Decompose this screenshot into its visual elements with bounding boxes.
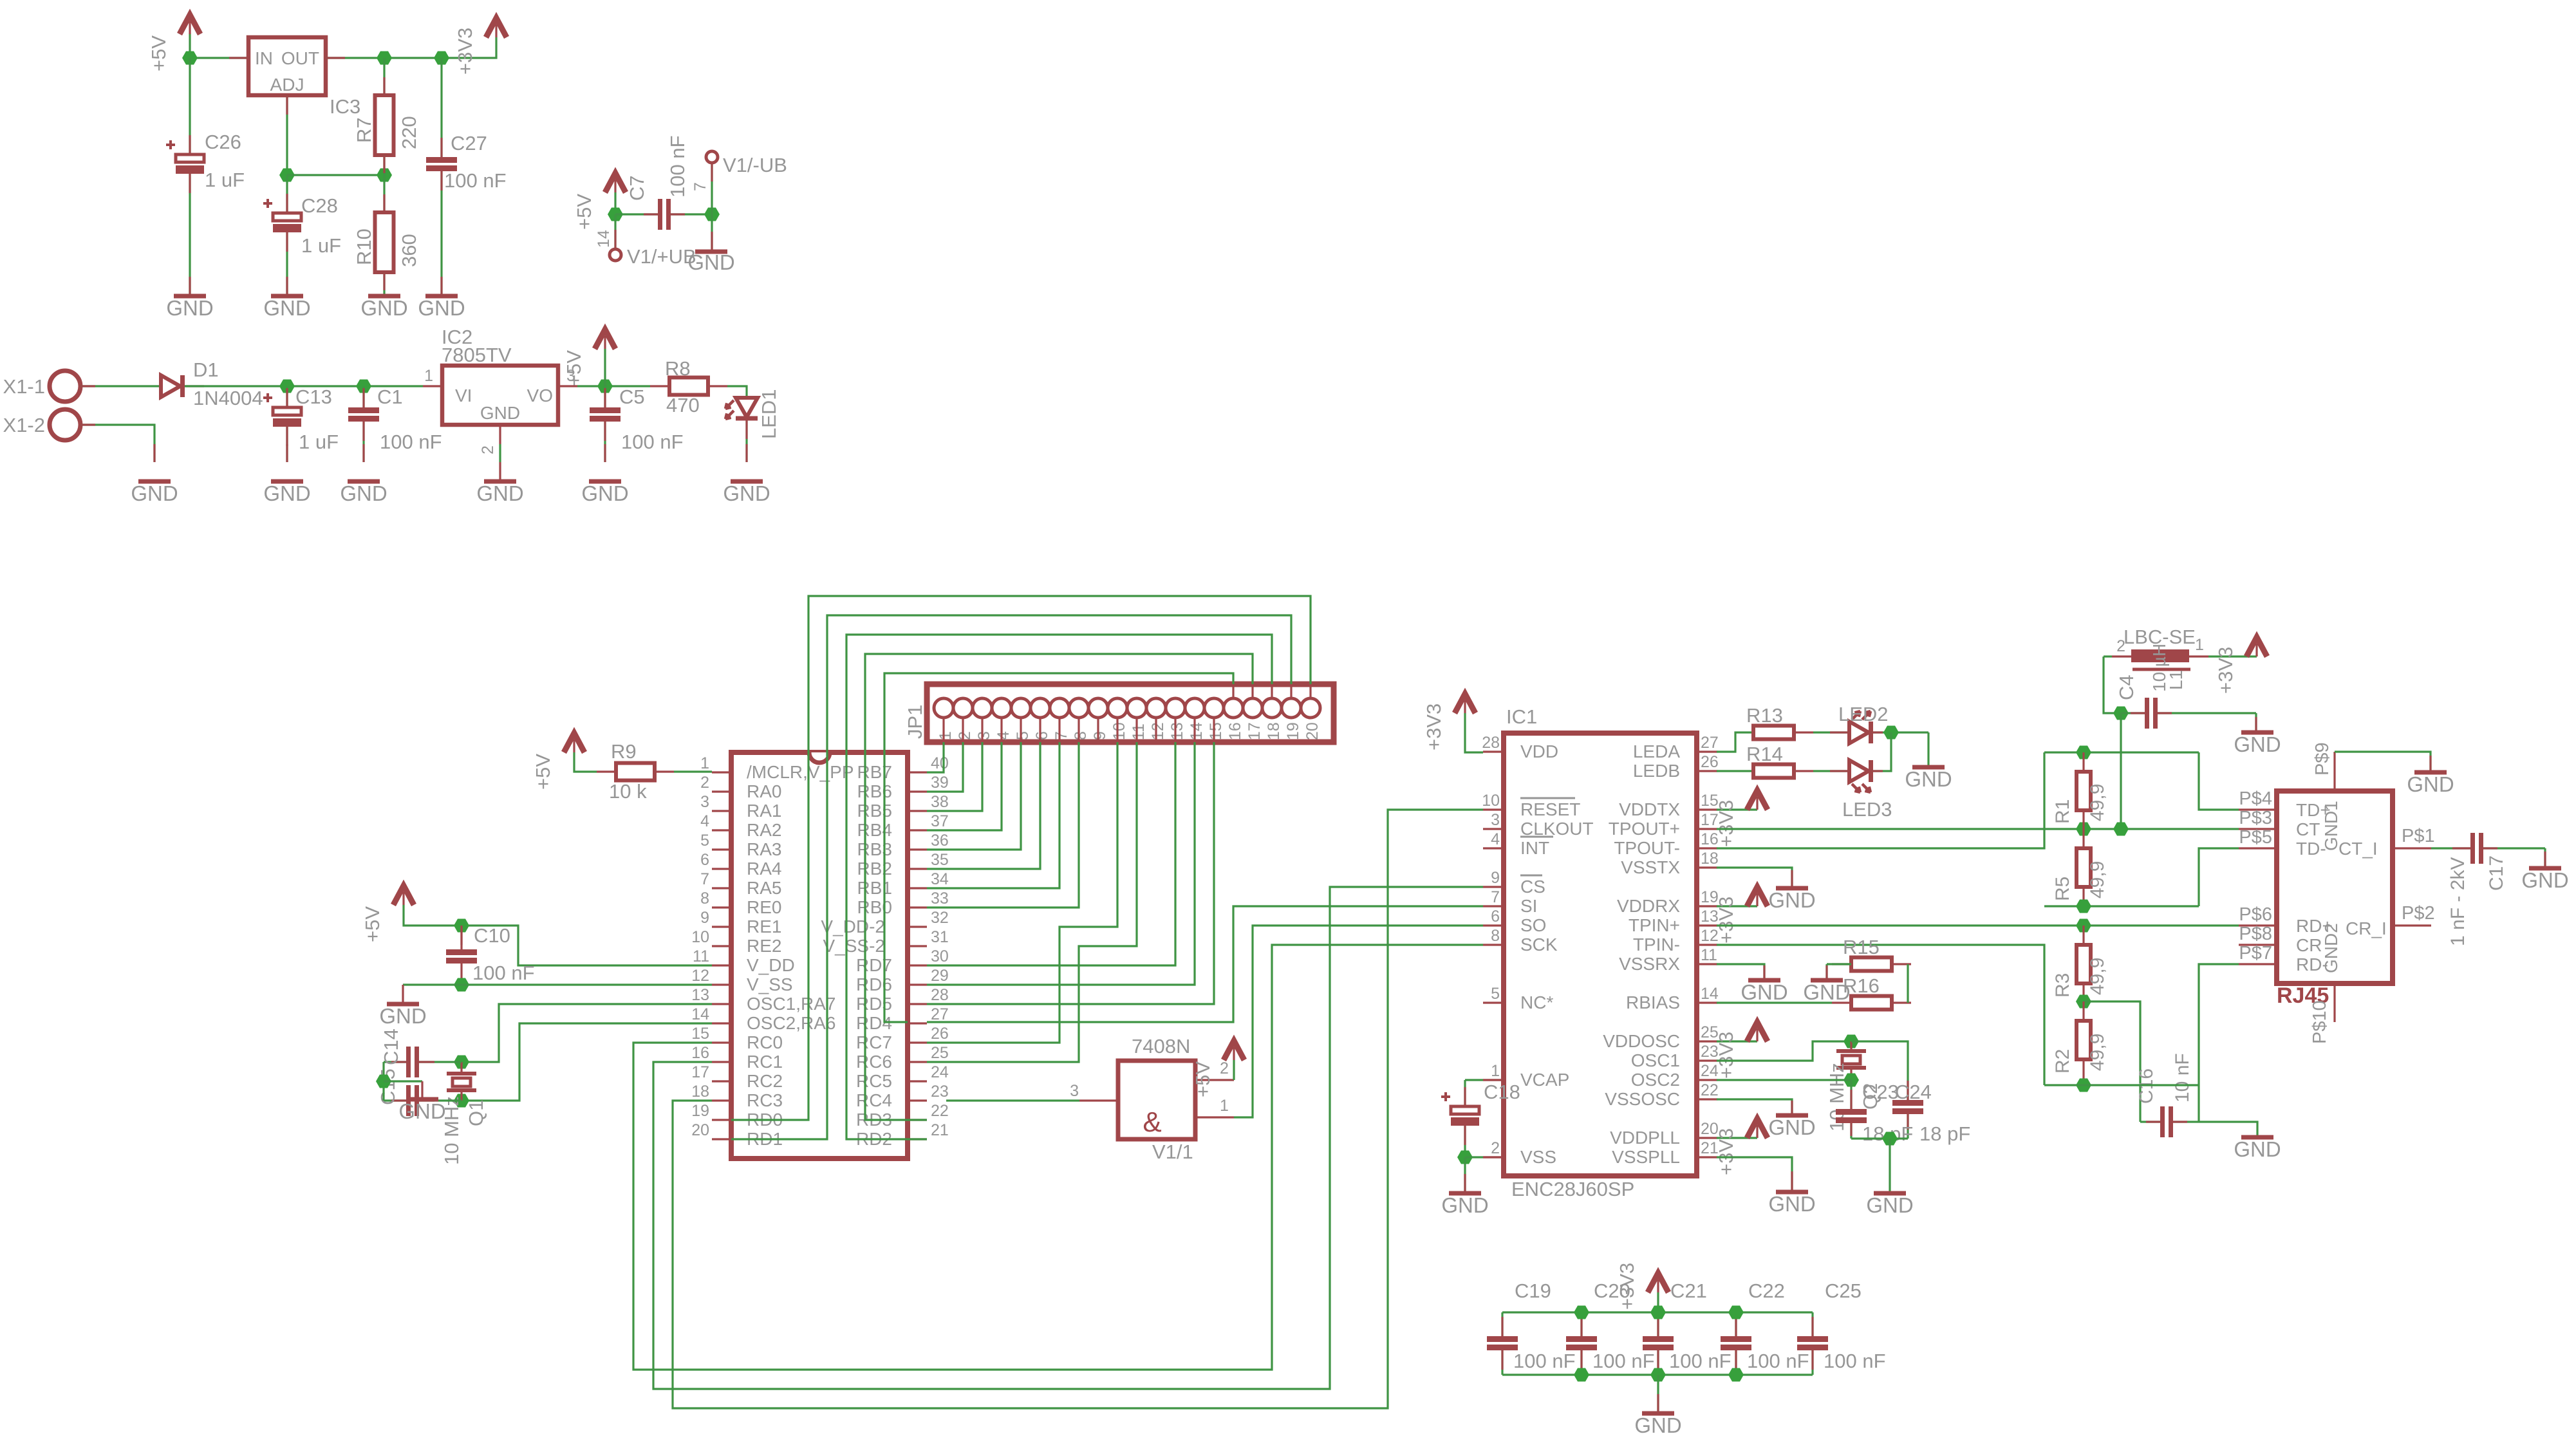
svg-text:RC1: RC1: [747, 1052, 783, 1072]
wire R15 left to GND: [1827, 963, 1851, 965]
svg-text:X1-1: X1-1: [3, 375, 45, 398]
junction C22 bottom: [1728, 1368, 1744, 1382]
capacitor C15: [419, 1099, 462, 1101]
svg-text:GND: GND: [263, 296, 310, 320]
LED3: [1849, 760, 1869, 782]
loop wire JP1-16 to RD4: [884, 673, 1233, 1022]
svg-text:20: 20: [691, 1121, 709, 1139]
svg-text:LEDB: LEDB: [1633, 761, 1680, 781]
svg-text:GND: GND: [1741, 980, 1787, 1004]
svg-text:GND: GND: [360, 296, 407, 320]
capacitor C26 1uF: [176, 154, 204, 162]
svg-text:IC3: IC3: [330, 95, 360, 118]
junction Q2 bottom: [1843, 1074, 1859, 1087]
wire JP1-13 to RD7: [927, 742, 1175, 965]
svg-text:C13: C13: [295, 386, 332, 408]
svg-text:C10: C10: [474, 924, 510, 947]
svg-text:GND: GND: [263, 481, 310, 505]
svg-text:VDDOSC: VDDOSC: [1603, 1031, 1680, 1051]
svg-text:R8: R8: [665, 357, 691, 380]
svg-text:V1/-UB: V1/-UB: [723, 154, 787, 176]
svg-text:RC0: RC0: [747, 1032, 783, 1052]
junction C21 top: [1650, 1306, 1666, 1319]
wire VO to +5V node: [558, 385, 577, 387]
ground for C5: [589, 480, 621, 484]
+3V3 supply symbol top-left: [486, 18, 507, 37]
svg-text:11: 11: [1130, 723, 1148, 740]
svg-text:22: 22: [1701, 1081, 1719, 1099]
svg-text:GND2: GND2: [2321, 923, 2341, 973]
svg-text:P$3: P$3: [2239, 808, 2272, 828]
svg-text:R5: R5: [2052, 877, 2073, 901]
junction C1: [356, 380, 371, 393]
svg-text:SO: SO: [1520, 915, 1546, 935]
svg-text:22: 22: [931, 1102, 949, 1120]
svg-text:RA4: RA4: [747, 859, 781, 879]
+3V3 for VDDRX: [1717, 905, 1757, 907]
junction C20 top: [1574, 1306, 1589, 1319]
+3V3 supply for IC1 VDD: [1455, 694, 1475, 713]
net OSC1 jog to crystal Q2: [1717, 1041, 1851, 1061]
svg-text:3: 3: [700, 793, 709, 811]
junction C22 top: [1728, 1306, 1744, 1319]
junction C13: [279, 380, 295, 393]
resistor R14: [1753, 765, 1794, 778]
svg-text:25: 25: [931, 1044, 949, 1062]
junction LED2/LED3 cathodes: [1871, 731, 1928, 733]
junction crystal top: [454, 1056, 469, 1069]
AND gate 7408N V1/1: [1118, 1061, 1195, 1139]
junction C10 top: [454, 919, 469, 933]
net TPIN+ to RD+: [1717, 924, 2239, 926]
svg-text:VSSTX: VSSTX: [1621, 857, 1680, 877]
svg-text:7: 7: [1491, 888, 1500, 906]
svg-text:3: 3: [1070, 1082, 1079, 1100]
capacitor C5 100nF: [604, 386, 606, 407]
PIC right pin stubs, numbers, names: [908, 771, 927, 773]
resistor R1 49.9: [2082, 752, 2084, 772]
svg-text:14: 14: [1188, 722, 1206, 740]
junction R1 bottom R5 top: [2076, 823, 2091, 836]
RX bottom rail: [2044, 1084, 2199, 1086]
svg-text:24: 24: [931, 1063, 949, 1081]
wire JP1-11 to RC6: [927, 742, 1137, 1062]
junction +5V/C5: [597, 380, 613, 393]
junction R3/R2/C16: [2076, 995, 2091, 1009]
wire R8 to LED1: [727, 386, 747, 398]
svg-text:18: 18: [691, 1083, 709, 1101]
svg-text:INT: INT: [1520, 838, 1549, 858]
wire node to C16: [2084, 1001, 2140, 1122]
svg-text:16: 16: [1226, 722, 1244, 740]
capacitor C24 18pF: [1892, 1100, 1923, 1106]
RJ45 pin P$9 to GND: [2333, 752, 2335, 791]
svg-text:26: 26: [931, 1025, 949, 1043]
resistor R5 49.9: [2082, 829, 2084, 848]
capacitor C1 100nF: [362, 386, 364, 407]
svg-text:R14: R14: [1746, 743, 1783, 765]
wire TD- to bottom rail: [2199, 848, 2239, 906]
capacitor C7 100nF: [615, 213, 658, 215]
junction crystal bottom: [454, 1094, 469, 1108]
svg-text:C24: C24: [1895, 1081, 1932, 1103]
capacitor C4: [2121, 712, 2145, 714]
svg-text:1N4004: 1N4004: [193, 387, 263, 409]
svg-text:ADJ: ADJ: [270, 75, 304, 95]
svg-text:GND: GND: [2521, 868, 2568, 892]
resistor R15: [1832, 963, 1851, 965]
svg-text:1 uF: 1 uF: [205, 169, 245, 191]
svg-text:17: 17: [1246, 722, 1264, 740]
svg-text:37: 37: [931, 812, 949, 830]
svg-text:NC*: NC*: [1520, 992, 1553, 1012]
svg-text:9: 9: [1491, 869, 1500, 887]
svg-text:C1: C1: [377, 386, 403, 408]
wire to pad V1/-UB: [711, 162, 713, 214]
svg-text:1: 1: [700, 754, 709, 772]
svg-text:RB4: RB4: [857, 820, 892, 840]
svg-text:JP1: JP1: [904, 705, 926, 739]
svg-text:26: 26: [1701, 753, 1719, 771]
svg-text:10: 10: [1482, 792, 1500, 810]
svg-text:8: 8: [1072, 731, 1090, 740]
svg-text:1 uF: 1 uF: [301, 234, 341, 257]
svg-text:6: 6: [1491, 908, 1500, 926]
svg-text:C27: C27: [451, 132, 487, 154]
svg-text:&: &: [1143, 1106, 1161, 1138]
svg-text:GND: GND: [2234, 1137, 2281, 1161]
svg-text:+3V3: +3V3: [1715, 800, 1737, 847]
svg-text:RBIAS: RBIAS: [1626, 992, 1680, 1012]
ground for C26: [174, 294, 206, 299]
svg-text:1: 1: [1491, 1062, 1500, 1080]
ground for VSSPLL: [1776, 1190, 1808, 1195]
svg-text:RC5: RC5: [856, 1071, 892, 1091]
capacitor C25 100nF: [1811, 1312, 1813, 1336]
svg-text:VDDRX: VDDRX: [1617, 896, 1680, 916]
svg-text:19: 19: [691, 1102, 709, 1120]
wire RD- down to C16: [2199, 964, 2239, 1122]
svg-text:C26: C26: [205, 131, 241, 153]
svg-text:R3: R3: [2052, 973, 2073, 998]
svg-text:+3V3: +3V3: [1715, 1128, 1737, 1175]
svg-text:GND: GND: [2407, 772, 2454, 796]
svg-text:CT_I: CT_I: [2338, 839, 2378, 859]
loop wire JP1-20 to RD0: [731, 596, 1311, 1120]
junction C20 bottom: [1574, 1368, 1589, 1382]
RJ45 pin P$1 stub: [2393, 847, 2431, 849]
svg-text:CR_I: CR_I: [2346, 918, 2387, 938]
wire L1 pin1 to +3V3: [2189, 655, 2208, 657]
svg-text:14: 14: [595, 230, 613, 248]
svg-text:10 k: 10 k: [609, 780, 647, 803]
svg-text:11: 11: [693, 947, 709, 965]
junction Q2 top: [1843, 1035, 1859, 1048]
ground for LED1: [731, 480, 763, 484]
wire JP1-10 to RC7: [927, 742, 1117, 1043]
svg-text:100 nF: 100 nF: [621, 431, 684, 453]
capacitor C13 1uF: [286, 386, 288, 407]
svg-text:VDDPLL: VDDPLL: [1610, 1128, 1680, 1148]
svg-text:C25: C25: [1825, 1280, 1862, 1302]
pad V1/+UB pin 14: [610, 249, 621, 261]
wire C7 to GND: [711, 214, 713, 250]
ground for C18: [1449, 1191, 1481, 1196]
svg-text:34: 34: [931, 870, 949, 888]
svg-text:7805TV: 7805TV: [442, 344, 512, 366]
wire JP1-2 to RB6: [927, 742, 963, 792]
svg-text:TPOUT-: TPOUT-: [1614, 838, 1680, 858]
net OSC1 to crystal: [462, 1004, 712, 1062]
ground for R10: [368, 294, 400, 299]
ground for C23/C24: [1874, 1191, 1906, 1196]
svg-text:OSC1: OSC1: [1631, 1050, 1680, 1070]
svg-text:2: 2: [1220, 1059, 1229, 1077]
svg-text:R7: R7: [353, 117, 375, 143]
ground for C7: [695, 250, 727, 254]
svg-text:C23: C23: [1862, 1081, 1899, 1103]
RJ45 pin P$10 stub: [2333, 983, 2335, 1022]
svg-text:29: 29: [931, 967, 949, 985]
svg-text:32: 32: [931, 909, 949, 927]
svg-text:4: 4: [1491, 830, 1500, 848]
svg-text:GND: GND: [1634, 1413, 1681, 1434]
svg-text:VO: VO: [527, 386, 553, 405]
net TPOUT+ to CT: [1717, 828, 2239, 830]
wire JP1-7 to RB1: [927, 742, 1059, 888]
ground for VSSTX: [1776, 886, 1808, 891]
svg-text:V1/+UB: V1/+UB: [627, 245, 696, 268]
svg-text:7: 7: [691, 182, 709, 191]
junction R2 bottom: [2076, 1079, 2091, 1092]
svg-text:RB2: RB2: [857, 859, 892, 879]
LED2: [1849, 722, 1869, 743]
RJ45 jack box: [2277, 791, 2393, 983]
svg-text:P$10: P$10: [2310, 1000, 2330, 1044]
svg-text:R1: R1: [2052, 799, 2073, 824]
svg-text:49,9: 49,9: [2087, 861, 2108, 899]
svg-text:P$7: P$7: [2239, 943, 2272, 964]
+5V supply symbol: [180, 15, 200, 34]
pad X1-1: [50, 371, 80, 402]
svg-text:7: 7: [700, 870, 709, 888]
svg-text:10 nF: 10 nF: [2172, 1053, 2193, 1103]
crystal Q1 10MHz: [460, 1062, 462, 1074]
wire ADJ pin down: [286, 95, 288, 175]
svg-text:2: 2: [479, 445, 497, 454]
wire C28 to GND: [286, 232, 288, 295]
junction CT/R branch: [2113, 823, 2129, 836]
svg-text:+3V3: +3V3: [1715, 897, 1737, 944]
wire VSS: [1465, 1156, 1483, 1158]
svg-text:GND: GND: [1803, 980, 1850, 1004]
ground for C17: [2529, 866, 2561, 871]
wire D1 to IC2 VI: [185, 385, 423, 387]
svg-text:RC3: RC3: [747, 1090, 783, 1110]
svg-text:5: 5: [700, 832, 709, 850]
net RC1 to CS loop: [653, 887, 1483, 1389]
svg-text:100 nF: 100 nF: [444, 169, 507, 192]
svg-text:C14: C14: [380, 1029, 402, 1065]
svg-text:100 nF: 100 nF: [1592, 1350, 1655, 1372]
wire LED1 to GND: [745, 420, 747, 462]
junction VSS/C18: [1457, 1151, 1473, 1164]
svg-text:100 nF: 100 nF: [1824, 1350, 1886, 1372]
svg-text:20: 20: [1303, 722, 1321, 740]
svg-text:4: 4: [994, 731, 1013, 740]
wire C4 to GND: [2255, 713, 2257, 731]
svg-text:18 pF: 18 pF: [1919, 1122, 1970, 1145]
svg-text:RE0: RE0: [747, 897, 781, 917]
svg-text:100 nF: 100 nF: [666, 135, 689, 198]
wire ADJ to R7-R10 node: [287, 174, 384, 176]
svg-text:RA1: RA1: [747, 801, 781, 821]
header JP1 box: [927, 684, 1334, 742]
ground for C4: [2241, 731, 2273, 735]
svg-text:1: 1: [2195, 636, 2204, 654]
pin-1 notch: [809, 752, 830, 763]
svg-text:360: 360: [398, 234, 420, 267]
svg-text:VSS: VSS: [1520, 1147, 1556, 1167]
LED1: [736, 398, 758, 417]
resistor R13: [1753, 726, 1794, 740]
svg-text:1: 1: [1220, 1097, 1229, 1115]
svg-text:23: 23: [931, 1083, 949, 1101]
net RC4 to 7408 pin 3: [946, 1099, 1079, 1101]
svg-text:19: 19: [1284, 722, 1302, 740]
net LEDB through R14: [1717, 770, 1753, 772]
+3V3 for VDDTX: [1717, 808, 1757, 810]
capacitor C16 10nF: [2140, 1121, 2160, 1122]
svg-text:2: 2: [956, 731, 974, 740]
net RC3 to RESET loop: [673, 810, 1483, 1408]
+3V3 for VDDOSC: [1717, 1040, 1757, 1042]
+5V supply symbol near C7: [605, 173, 626, 192]
svg-text:RA3: RA3: [747, 839, 781, 859]
wire L1 pin2 to C4 node: [2112, 655, 2131, 657]
svg-text:+5V: +5V: [1191, 1061, 1214, 1097]
7408 pin 1 output to SO: [1195, 1116, 1234, 1118]
svg-text:16: 16: [691, 1044, 709, 1062]
wire VSSRX to GND: [1717, 964, 1764, 979]
svg-text:+3V3: +3V3: [2214, 647, 2237, 694]
IC1 right pin stubs, numbers, names: [1697, 750, 1717, 752]
net TPIN- jog down: [1717, 945, 2044, 1085]
svg-text:RA5: RA5: [747, 878, 781, 898]
RJ45 left pin stubs and names: [2239, 808, 2277, 810]
svg-text:ENC28J60SP: ENC28J60SP: [1511, 1178, 1634, 1200]
svg-text:28: 28: [931, 986, 949, 1004]
junction RD+/R3: [2076, 919, 2091, 933]
svg-text:V_DD: V_DD: [747, 955, 795, 975]
capacitor C19 100nF: [1501, 1312, 1503, 1336]
svg-text:+3V3: +3V3: [454, 28, 476, 75]
svg-text:17: 17: [691, 1063, 709, 1081]
wire VSSTX to GND: [1717, 868, 1792, 887]
wire JP1-15 to RD5: [927, 742, 1214, 1004]
svg-text:R13: R13: [1746, 704, 1783, 727]
svg-text:1: 1: [424, 367, 433, 385]
svg-text:12: 12: [1149, 722, 1167, 740]
wire VSSPLL to GND: [1717, 1157, 1792, 1191]
svg-text:C19: C19: [1515, 1280, 1551, 1302]
wire R15/R16 right ends: [1907, 964, 1909, 1003]
svg-text:OUT: OUT: [281, 48, 319, 68]
net V_DD with C10: [404, 905, 712, 965]
svg-text:+5V: +5V: [532, 754, 554, 790]
net RC0 to SCK loop: [633, 945, 1483, 1370]
ground for P$9: [2414, 770, 2447, 775]
svg-text:7408N: 7408N: [1132, 1035, 1190, 1057]
junction C10 bottom: [454, 978, 469, 992]
svg-text:13: 13: [1168, 722, 1186, 740]
junction OUT/C27: [434, 51, 449, 65]
svg-text:VSSRX: VSSRX: [1619, 954, 1680, 974]
svg-text:8: 8: [1491, 927, 1500, 945]
svg-text:V_SS: V_SS: [747, 974, 793, 994]
svg-text:15: 15: [691, 1025, 709, 1043]
wire +5V node to pad V1/+UB: [614, 214, 616, 249]
svg-text:100 nF: 100 nF: [1669, 1350, 1731, 1372]
svg-text:P$2: P$2: [2402, 903, 2435, 924]
wire JP1-4 to RB4: [927, 742, 1002, 830]
svg-text:RB5: RB5: [857, 801, 892, 821]
capacitor C22 100nF: [1735, 1312, 1737, 1336]
ground for IC2: [484, 480, 516, 484]
voltage regulator IC3: [248, 37, 326, 95]
svg-text:21: 21: [931, 1121, 949, 1139]
svg-text:GND: GND: [581, 481, 628, 505]
svg-text:C7: C7: [626, 175, 648, 201]
svg-text:Q1: Q1: [465, 1100, 487, 1126]
net TPOUT- jog up: [1717, 752, 2044, 848]
decoupling bottom rail: [1502, 1373, 1813, 1375]
svg-text:+5V: +5V: [573, 194, 595, 230]
RJ45 pin P$2 stub: [2393, 924, 2431, 926]
svg-text:GND: GND: [166, 296, 213, 320]
svg-text:+3V3: +3V3: [1423, 703, 1445, 750]
svg-text:33: 33: [931, 889, 949, 908]
svg-text:220: 220: [398, 116, 420, 149]
ground for decoupling bank: [1642, 1411, 1674, 1416]
svg-text:36: 36: [931, 832, 949, 850]
svg-text:49,9: 49,9: [2087, 1034, 2108, 1071]
svg-text:39: 39: [931, 774, 949, 792]
ground for VSSRX: [1748, 978, 1780, 983]
svg-text:RESET: RESET: [1520, 799, 1580, 819]
ground for X1-2: [138, 480, 171, 484]
net RBIAS to R16: [1717, 1001, 1832, 1003]
svg-text:LED2: LED2: [1838, 703, 1889, 725]
+5V supply symbol IC2 out: [595, 330, 615, 349]
svg-text:7: 7: [1052, 731, 1070, 740]
svg-text:X1-2: X1-2: [3, 414, 45, 436]
junction +5V/C26: [182, 51, 198, 65]
svg-text:RB1: RB1: [857, 878, 892, 898]
power net +5V to IC3: [190, 33, 248, 58]
svg-text:C21: C21: [1670, 1280, 1707, 1302]
wire CT branch down: [2120, 713, 2122, 829]
junction C7 right: [704, 208, 720, 221]
wire JP1-5 to RB3: [927, 742, 1021, 850]
wire X1-2 to GND: [80, 425, 154, 462]
svg-text:RC7: RC7: [856, 1032, 892, 1052]
svg-text:30: 30: [931, 947, 949, 965]
svg-text:18: 18: [1265, 722, 1283, 740]
loop wire JP1-17 to RD3: [865, 654, 1253, 1120]
svg-text:SI: SI: [1520, 896, 1537, 916]
svg-text:VDD: VDD: [1520, 741, 1558, 761]
